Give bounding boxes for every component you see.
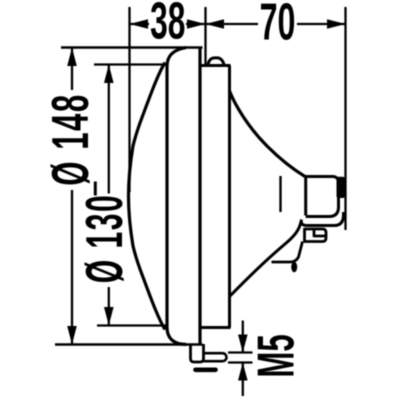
ring front edge [167, 48, 186, 345]
M5 bolt [204, 353, 227, 361]
retaining clip bump [208, 58, 225, 66]
svg-text:Ø 148: Ø 148 [42, 93, 100, 185]
label Ø148 [42, 93, 100, 185]
connector boot outer [301, 212, 343, 226]
flange bottom edge [200, 326, 231, 329]
flange top edge [200, 64, 231, 67]
dim 38 left extension line [128, 7, 130, 192]
arrow 70 right [327, 19, 346, 29]
dim Ø148 line [71, 48, 73, 345]
socket bottom detail [272, 242, 303, 263]
arrow 38 right [187, 19, 206, 29]
reflector lower outline [230, 222, 302, 297]
dim 38/70 shared extension line [204, 7, 206, 66]
rim top edge with Ø148 extension [61, 46, 203, 49]
drain teardrop [291, 262, 297, 273]
reflector front seam [228, 66, 231, 328]
dim 70 right extension line [344, 7, 346, 230]
svg-text:Ø 130: Ø 130 [77, 194, 134, 283]
svg-text:70: 70 [260, 0, 296, 51]
arrow Ø148 top [67, 48, 77, 67]
arrow Ø130 top [104, 65, 114, 84]
extension line Ø130 top [94, 63, 168, 65]
svg-text:38: 38 [150, 0, 185, 51]
bottom tab [305, 229, 327, 242]
arrow M5 upper [238, 335, 248, 353]
extension line Ø130 bottom [97, 324, 166, 326]
bulb holder edge [279, 176, 281, 212]
lock bar [196, 367, 216, 372]
lens outer curve [129, 63, 166, 330]
dim line 38 [130, 23, 206, 25]
dim Ø130 line [108, 65, 110, 326]
rim bottom edge with Ø148 extension [55, 343, 203, 346]
terminal blade [337, 177, 345, 198]
stray mark [94, 182, 97, 196]
label M5 [247, 334, 305, 377]
dim line 70 [206, 23, 346, 25]
mounting stud [191, 344, 204, 362]
arrow Ø148 bottom [67, 326, 77, 345]
arrow 70 left [206, 19, 225, 29]
dim M5 lines [228, 321, 253, 397]
arrow 38 left [130, 19, 149, 29]
arrow M5 lower [238, 363, 248, 381]
label 38 [150, 0, 185, 51]
rim right edge [198, 48, 201, 345]
connector body [306, 177, 339, 217]
label 70 [260, 0, 296, 51]
label Ø130 [77, 194, 134, 283]
arrow Ø130 bottom [104, 307, 114, 326]
reflector upper outline [230, 91, 306, 177]
svg-text:M5: M5 [247, 334, 305, 377]
